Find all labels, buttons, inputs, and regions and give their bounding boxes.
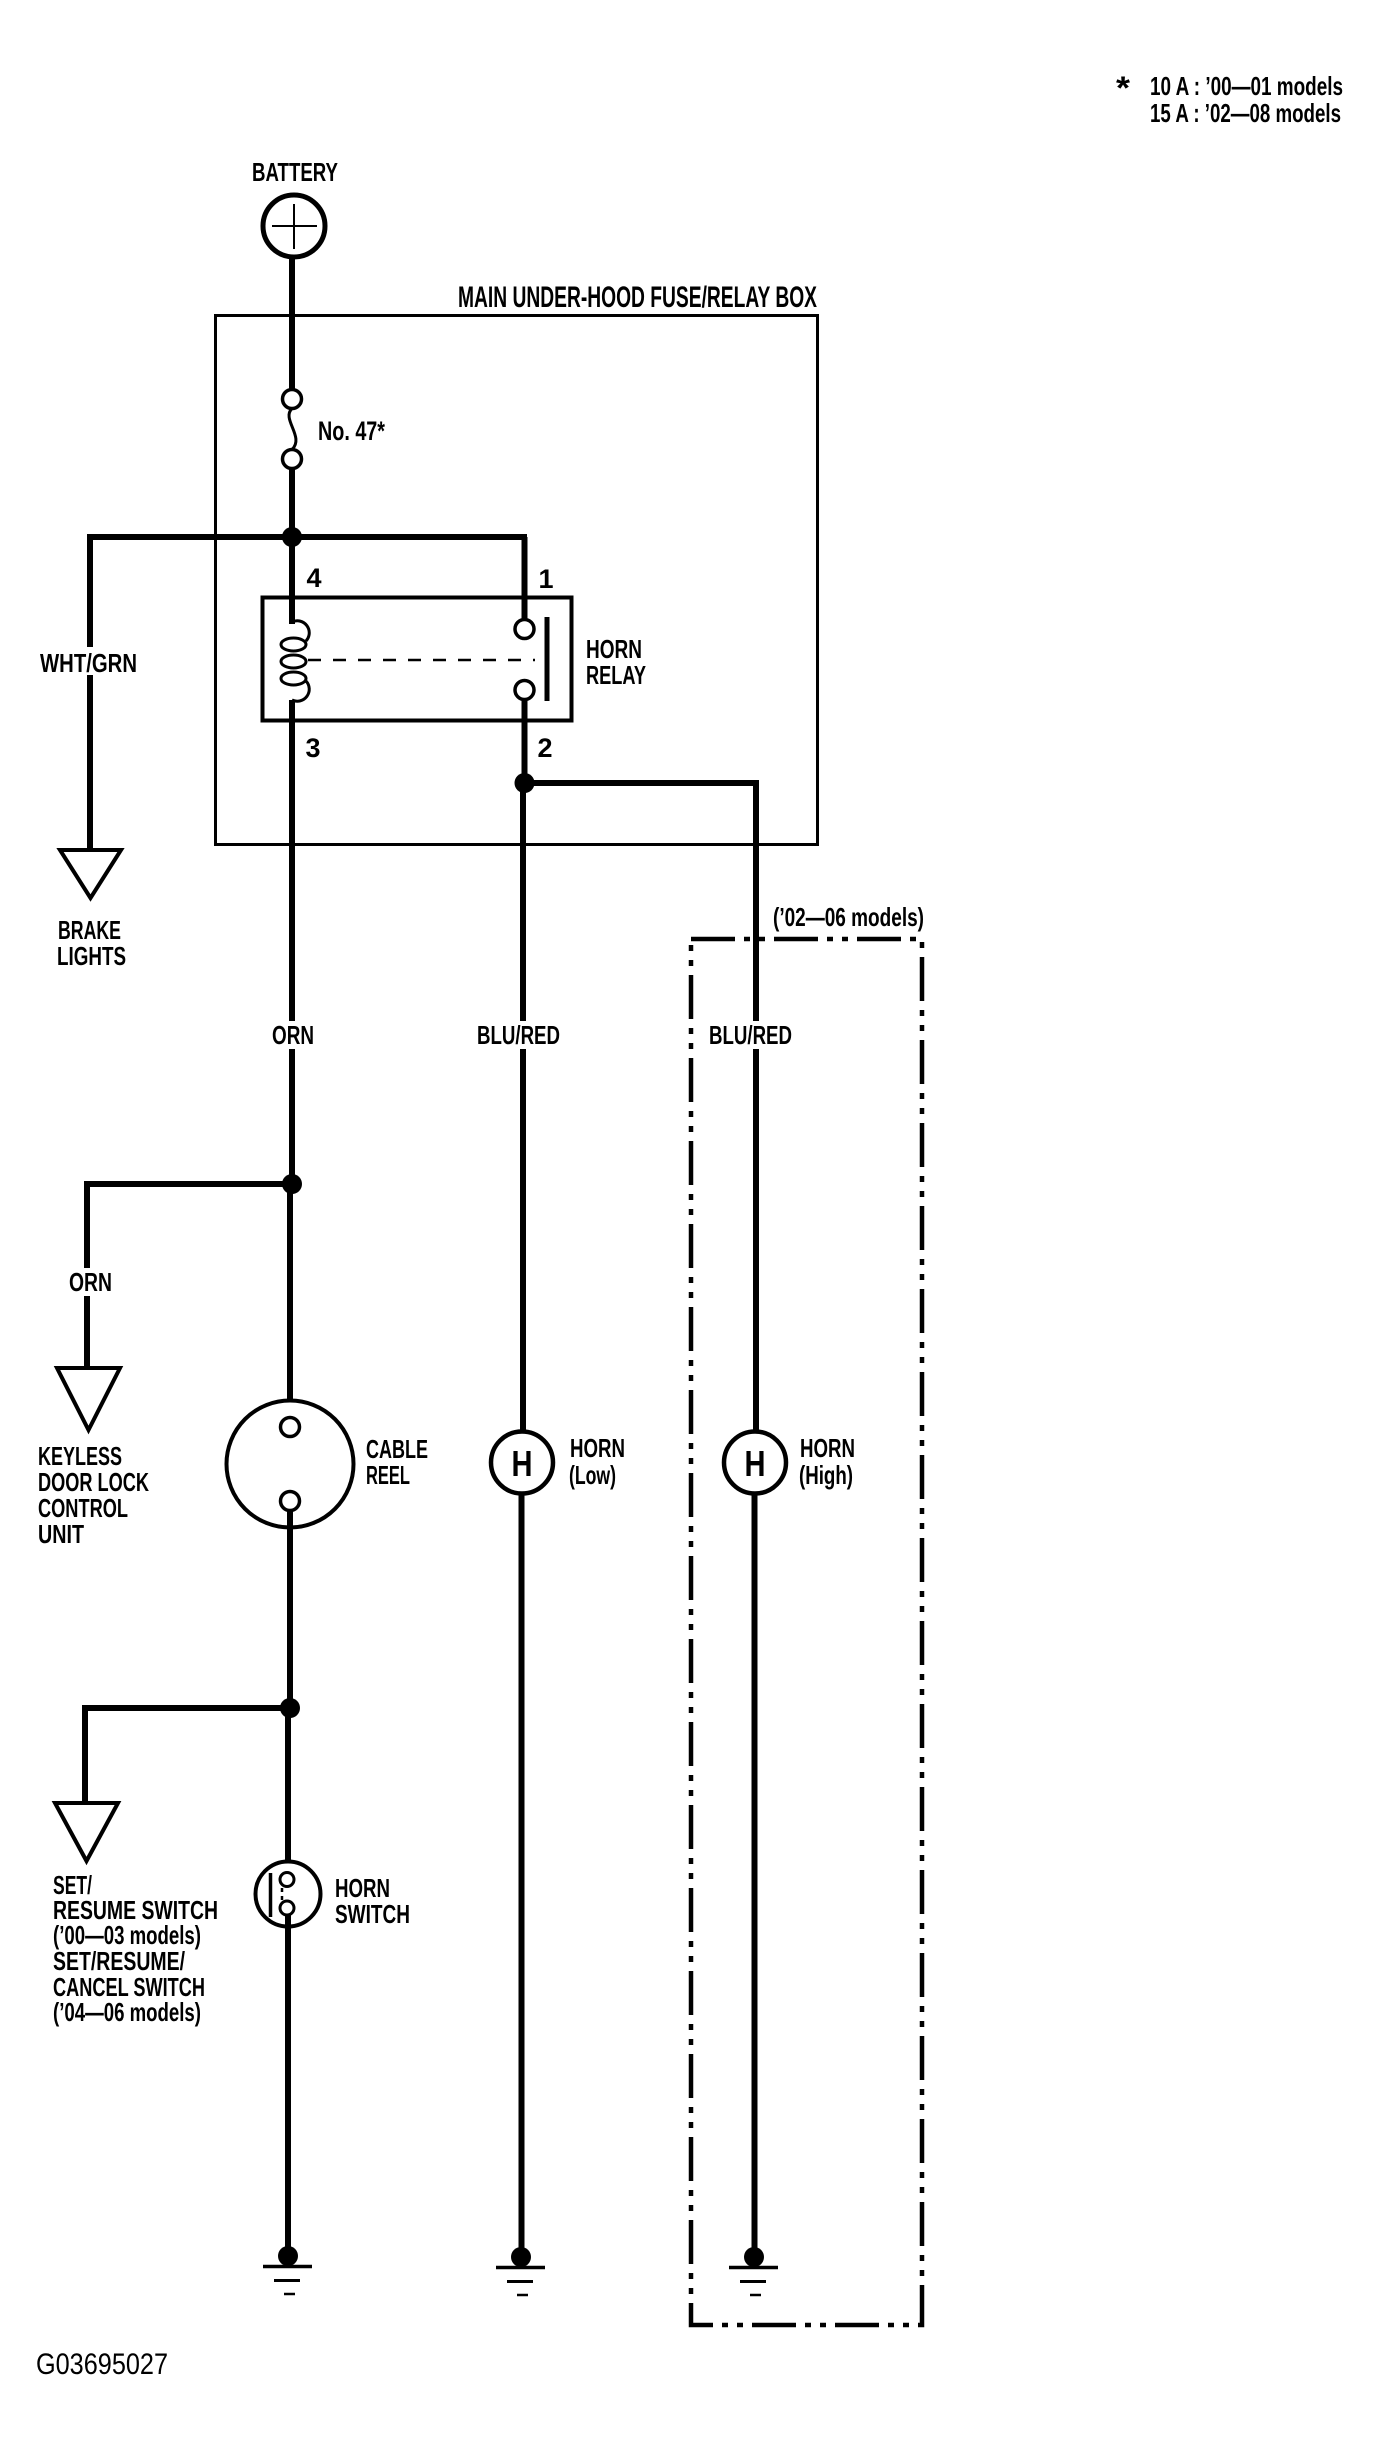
dashed enclosure for '02-06 models: [691, 939, 922, 2325]
ground G2: [496, 2247, 545, 2295]
wire battery to fuse: [289, 256, 295, 391]
ground G1: [263, 2246, 312, 2294]
wire J1 to relay pin 4 / coil: [289, 537, 295, 624]
ground G3: [729, 2247, 778, 2295]
wire J2 to horn-high branch corner: [525, 783, 757, 1432]
label KEYLESS DOOR LOCK CONTROL UNIT: [38, 1441, 149, 1549]
svg-text:(Low): (Low): [569, 1460, 616, 1490]
svg-text:UNIT: UNIT: [38, 1519, 84, 1549]
wire relay pin 3 down (ORN): [289, 700, 295, 1184]
svg-text:ORN: ORN: [272, 1020, 314, 1050]
wire horn high to ground G3: [752, 1494, 758, 2251]
horn (high): [724, 1432, 786, 1494]
label HORN (High): [799, 1433, 855, 1490]
svg-text:BLU/RED: BLU/RED: [709, 1020, 792, 1050]
svg-text:MAIN UNDER-HOOD FUSE/RELAY BOX: MAIN UNDER-HOOD FUSE/RELAY BOX: [458, 281, 817, 314]
svg-text:LIGHTS: LIGHTS: [57, 941, 126, 971]
svg-text:H: H: [512, 1443, 533, 1484]
wire fuse to node J1: [289, 468, 295, 540]
label HORN SWITCH: [335, 1873, 410, 1929]
svg-text:H: H: [745, 1443, 766, 1484]
label HORN (Low): [569, 1433, 625, 1490]
node J1: [282, 527, 302, 547]
wire horn switch to ground G1: [285, 1915, 291, 2250]
wire BLU/RED low vertical: [520, 783, 526, 1432]
wire J4 to horn switch: [285, 1708, 291, 1873]
wire J4 horizontal branch: [85, 1705, 290, 1711]
node J4: [280, 1698, 300, 1718]
relay contact terminal pin 2: [515, 681, 534, 700]
svg-text:HORN: HORN: [800, 1433, 855, 1463]
label SET/RESUME SWITCH block: [53, 1870, 218, 2027]
main under-hood fuse/relay box: [216, 316, 818, 845]
fuse rating footnote: [1116, 70, 1343, 128]
svg-text:BLU/RED: BLU/RED: [477, 1020, 560, 1050]
svg-text:10 A : ’00—01 models: 10 A : ’00—01 models: [1150, 71, 1343, 101]
fuse No.47: [283, 390, 302, 469]
svg-text:15 A : ’02—08 models: 15 A : ’02—08 models: [1150, 98, 1341, 128]
svg-text:*: *: [1116, 70, 1131, 106]
battery B+ terminal: [263, 195, 325, 257]
svg-text:1: 1: [538, 564, 553, 594]
relay contact bar: [545, 617, 550, 701]
svg-text:(High): (High): [799, 1460, 853, 1490]
svg-text:RELAY: RELAY: [586, 660, 646, 690]
horn relay U1 body: [263, 598, 572, 721]
wire ORN branch down: [84, 1181, 90, 1368]
relay coil: [281, 621, 309, 701]
horn (low): [491, 1432, 553, 1494]
wire J3 horizontal branch: [87, 1181, 292, 1187]
horn switch: [256, 1862, 321, 1927]
svg-text:BATTERY: BATTERY: [252, 157, 338, 187]
svg-text:(’04—06 models): (’04—06 models): [53, 1997, 201, 2027]
svg-text:WHT/GRN: WHT/GRN: [40, 648, 137, 678]
wire relay pin 1: [522, 537, 528, 620]
wire horn low to ground G2: [519, 1494, 525, 2251]
label CABLE REEL: [366, 1434, 428, 1490]
wire WHT/GRN branch: [87, 534, 93, 850]
svg-text:REEL: REEL: [366, 1460, 410, 1490]
wire relay pin 2 down to node J2: [522, 699, 528, 783]
label BRAKE LIGHTS: [57, 915, 126, 971]
svg-text:2: 2: [537, 733, 552, 763]
svg-text:3: 3: [305, 733, 320, 763]
svg-text:SWITCH: SWITCH: [335, 1899, 410, 1929]
svg-text:(’02—06 models): (’02—06 models): [773, 902, 924, 932]
label BLU/RED (low): [475, 1020, 562, 1050]
node J3: [282, 1174, 302, 1194]
svg-text:ORN: ORN: [69, 1267, 112, 1297]
label ORN (main line): [270, 1020, 316, 1050]
node J2: [515, 773, 535, 793]
wire set/resume branch down: [82, 1705, 88, 1803]
svg-text:No. 47*: No. 47*: [318, 416, 385, 446]
svg-text:4: 4: [306, 563, 321, 593]
wire cable reel to node J4: [287, 1510, 293, 1708]
svg-text:HORN: HORN: [570, 1433, 625, 1463]
connector arrow to keyless unit: [57, 1368, 120, 1430]
connector arrow to set/resume switch: [55, 1803, 118, 1861]
label BLU/RED (high): [707, 1020, 794, 1050]
label WHT/GRN: [38, 647, 139, 678]
svg-text:G03695027: G03695027: [36, 2348, 168, 2381]
wire J1 horizontal bus: [90, 534, 527, 540]
relay armature dashed link: [308, 659, 535, 662]
label HORN RELAY: [586, 634, 646, 690]
label ORN (branch): [67, 1267, 114, 1297]
wire J3 to cable reel: [287, 1184, 293, 1420]
cable reel: [227, 1401, 354, 1528]
connector arrow to brake lights: [60, 850, 121, 898]
relay contact terminal pin 1: [515, 620, 534, 639]
